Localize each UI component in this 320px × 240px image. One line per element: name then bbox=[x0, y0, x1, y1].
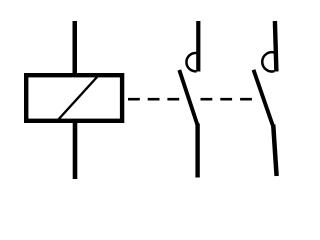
S1 contactor hook arc bbox=[186, 53, 196, 71]
wire switch S1 bottom terminal bbox=[195, 124, 199, 178]
dashed actuation link, left segment bbox=[128, 98, 180, 101]
wire switch S2 top terminal bbox=[275, 21, 277, 72]
S2 moving contact lever bbox=[254, 70, 273, 125]
wire switch S2 bottom terminal bbox=[273, 125, 276, 177]
coil diagonal stripe bbox=[57, 77, 98, 122]
wire coil bottom terminal bbox=[73, 120, 78, 179]
wire switch S1 top terminal bbox=[196, 21, 200, 72]
wire coil top terminal bbox=[73, 21, 78, 76]
relay coil K1 bbox=[26, 75, 122, 121]
S2 contactor hook arc bbox=[262, 52, 274, 71]
dashed actuation link, right segment bbox=[201, 98, 253, 101]
S1 moving contact lever bbox=[179, 70, 197, 125]
